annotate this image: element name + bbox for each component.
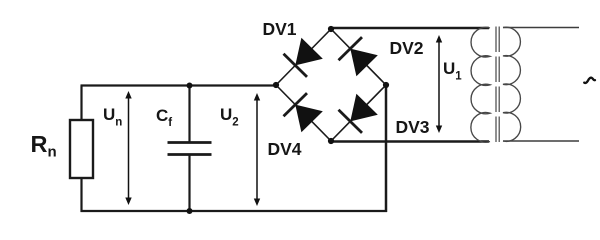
capacitor Cf plate bottom xyxy=(168,153,212,156)
wire bridge right node drop xyxy=(385,85,388,212)
diode DV2 bar xyxy=(339,37,363,60)
node top junction dot xyxy=(328,26,334,32)
capacitor Cf plate top xyxy=(168,141,212,144)
svg-text:Cf: Cf xyxy=(156,106,172,129)
voltage arrow U2 xyxy=(254,93,260,206)
diode DV1 triangle xyxy=(295,38,323,66)
wire left rail bottom xyxy=(80,177,82,212)
svg-text:DV4: DV4 xyxy=(268,139,302,159)
svg-text:Rn: Rn xyxy=(31,131,57,161)
svg-text:U2: U2 xyxy=(220,105,239,129)
node bottom junction dot xyxy=(328,138,334,144)
bridge arm top-left xyxy=(276,29,331,85)
bridge arm bottom-right xyxy=(331,85,386,141)
diode DV1 bar xyxy=(284,54,308,77)
AC source squiggle s xyxy=(584,78,595,83)
node left junction dot xyxy=(273,82,279,88)
diode DV4 triangle xyxy=(295,105,323,133)
wire capacitor stem upper xyxy=(188,86,190,143)
wire transformer right bottom xyxy=(503,140,579,142)
wire transformer right top xyxy=(503,27,579,29)
wire top rail xyxy=(81,84,277,86)
svg-text:Un: Un xyxy=(103,105,122,129)
transformer primary winding (right) xyxy=(503,27,521,141)
wire capacitor stem lower xyxy=(188,155,190,212)
wire bridge top to transformer xyxy=(331,27,489,29)
svg-text:DV1: DV1 xyxy=(263,19,297,39)
transformer core dashed line 2 xyxy=(498,27,500,143)
resistor Rn xyxy=(70,120,93,178)
svg-text:DV3: DV3 xyxy=(396,117,430,137)
svg-text:U1: U1 xyxy=(443,59,462,83)
node capacitor top dot xyxy=(187,83,193,89)
bridge arm bottom-left xyxy=(276,85,331,141)
diode DV4 bar xyxy=(284,93,308,116)
svg-text:DV2: DV2 xyxy=(390,38,424,58)
transformer secondary winding (left) xyxy=(471,27,490,142)
diode DV3 triangle xyxy=(350,94,378,122)
wire bottom rail xyxy=(81,210,388,212)
voltage arrow U1 xyxy=(436,35,442,133)
diode DV2 triangle xyxy=(350,49,378,77)
node right junction dot xyxy=(383,82,389,88)
wire bridge bottom to transformer xyxy=(331,140,489,142)
bridge arm top-right xyxy=(331,29,386,85)
wire left rail top xyxy=(80,86,82,122)
diode DV3 bar xyxy=(339,110,363,133)
transformer core dashed line 1 xyxy=(495,27,497,143)
voltage arrow Un xyxy=(125,91,131,205)
node capacitor bottom dot xyxy=(187,208,193,214)
